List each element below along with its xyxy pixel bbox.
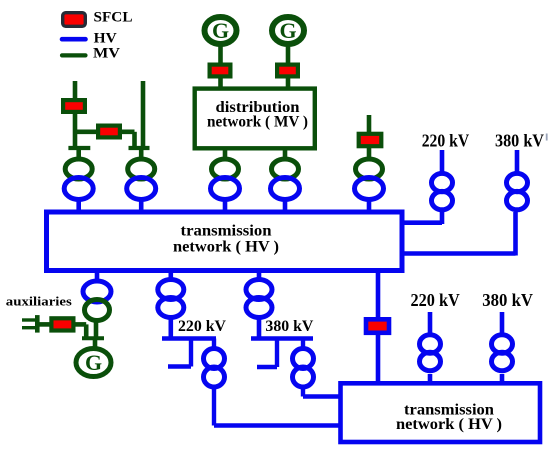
svg-text:transmission: transmission	[181, 222, 272, 239]
svg-text:network ( HV ): network ( HV )	[173, 239, 279, 256]
svg-text:G: G	[212, 18, 229, 43]
svg-text:MV: MV	[93, 45, 121, 61]
svg-text:220 kV: 220 kV	[422, 130, 470, 150]
svg-text:network ( HV ): network ( HV )	[396, 416, 502, 433]
svg-text:HV: HV	[94, 30, 118, 46]
svg-text:G: G	[85, 350, 102, 375]
svg-text:380 kV: 380 kV	[482, 290, 533, 310]
svg-text:220 kV: 220 kV	[178, 318, 227, 335]
svg-text:auxiliaries: auxiliaries	[6, 293, 72, 308]
svg-text:380 kV: 380 kV	[495, 130, 544, 150]
svg-text:380 kV: 380 kV	[265, 318, 314, 335]
svg-text:G: G	[279, 18, 296, 43]
svg-text:220 kV: 220 kV	[411, 290, 461, 310]
svg-text:network ( MV ): network ( MV )	[207, 114, 308, 131]
svg-text:SFCL: SFCL	[94, 10, 133, 26]
